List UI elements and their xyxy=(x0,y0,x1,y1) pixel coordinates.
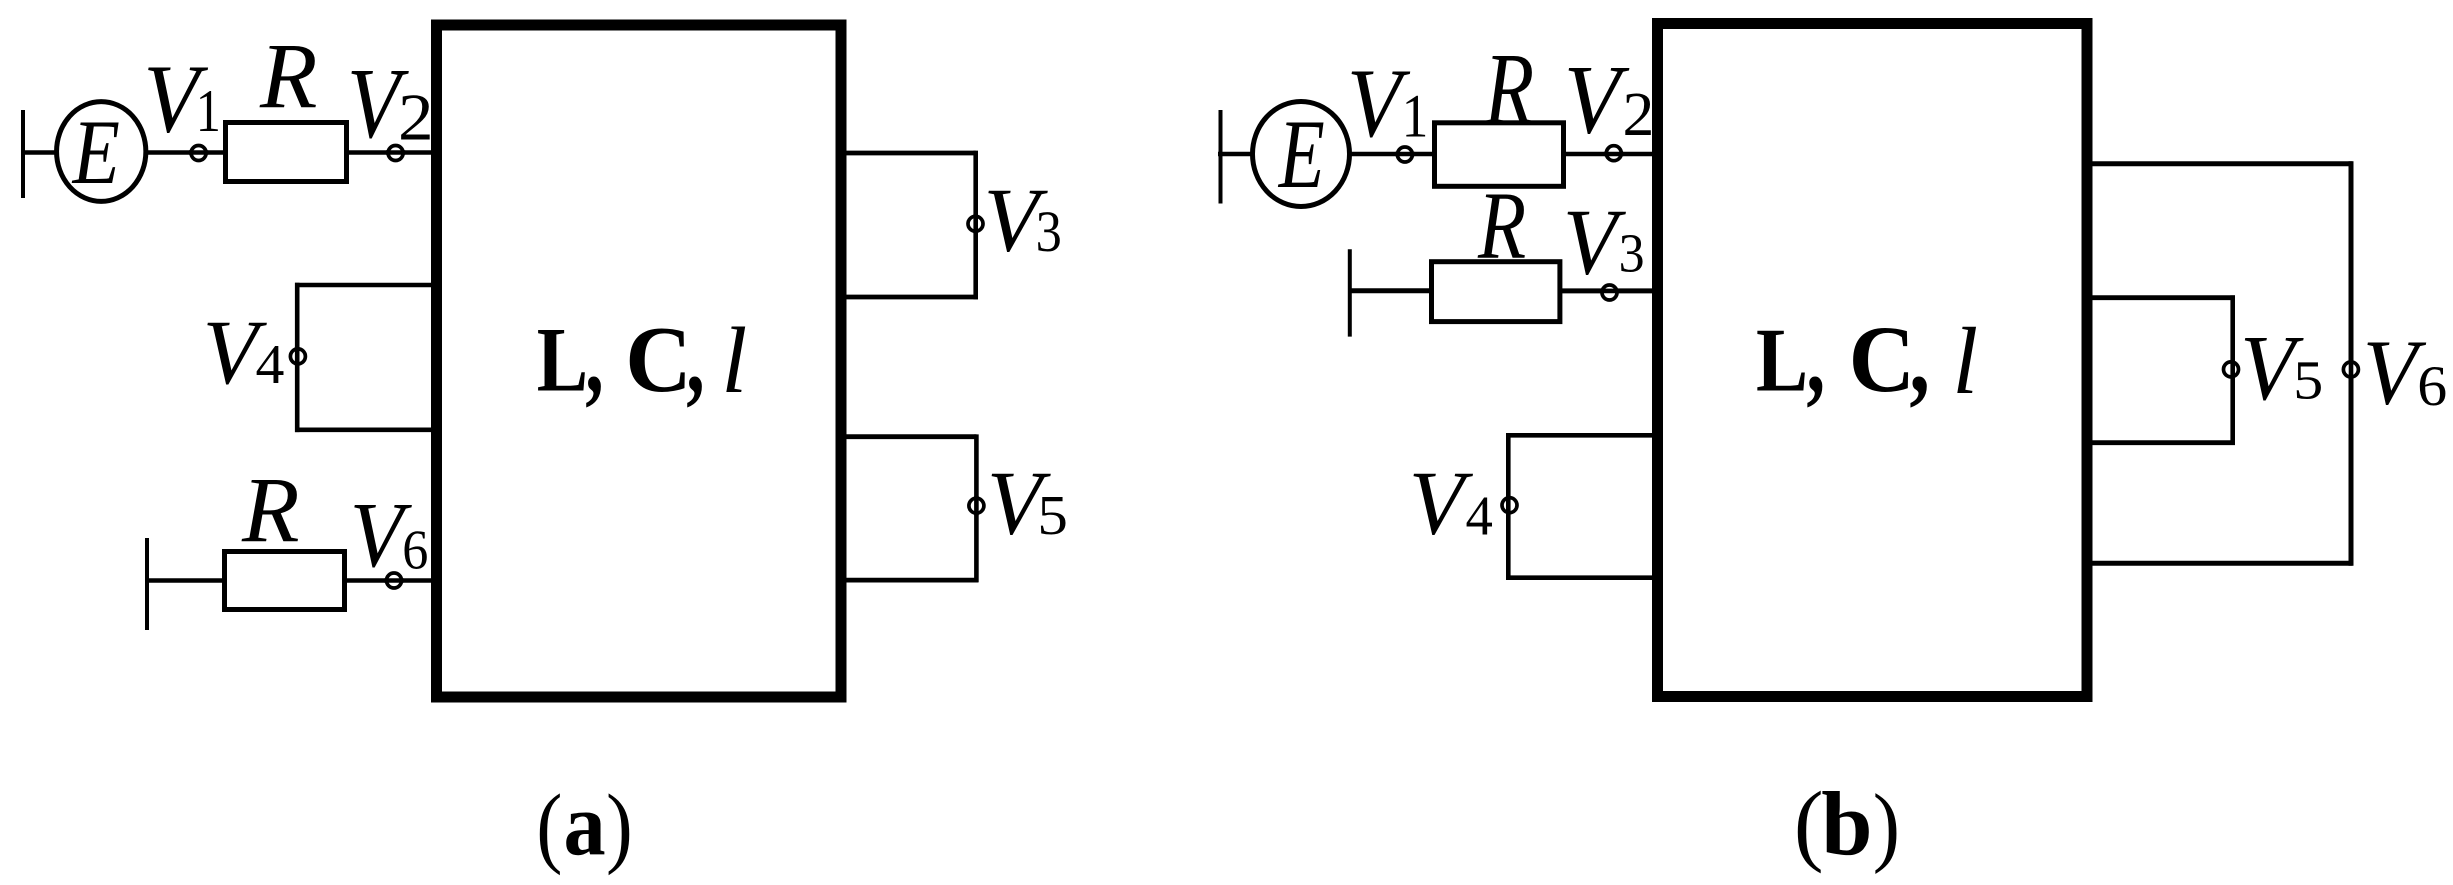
wire terminal to resistor R2 (b) xyxy=(1348,288,1432,293)
node V2 (b) xyxy=(1604,146,1623,161)
wire source E to node V1 (b) xyxy=(1350,152,1398,157)
node V1 (b) xyxy=(1395,147,1414,162)
label V3 (a) xyxy=(984,169,1062,270)
svg-text:V: V xyxy=(1564,45,1630,154)
svg-text:,: , xyxy=(1806,301,1825,414)
terminal bar of source E (b) xyxy=(1219,110,1223,204)
wire terminal to source E (a) xyxy=(21,150,56,155)
label L, C, l (b) xyxy=(1756,301,1978,415)
wire V4 loop bottom (a) xyxy=(295,427,434,432)
svg-text:C: C xyxy=(625,308,691,412)
svg-text:b: b xyxy=(1821,773,1872,874)
node V3 (a) xyxy=(968,214,983,233)
svg-text:5: 5 xyxy=(2293,351,2323,411)
svg-text:4: 4 xyxy=(256,334,285,396)
wire node V1 to resistor R1 (b) xyxy=(1412,152,1435,157)
terminal bar of second input (b) xyxy=(1348,249,1352,336)
label V6 (b) xyxy=(2363,320,2447,424)
svg-text:V: V xyxy=(1409,452,1474,553)
label V2 (b) xyxy=(1564,45,1655,154)
caption (b) xyxy=(1794,773,1900,875)
resistor R1 (b) xyxy=(1435,123,1564,187)
svg-text:L: L xyxy=(1756,310,1808,411)
caption (a) xyxy=(536,776,632,877)
svg-text:R: R xyxy=(259,26,317,128)
wire V4 loop left (a) xyxy=(295,283,300,432)
svg-text:l: l xyxy=(1952,309,1978,415)
svg-text:3: 3 xyxy=(1036,200,1062,264)
svg-text:): ) xyxy=(1873,776,1900,875)
wire V4 loop bottom (b) xyxy=(1506,575,1655,580)
label V4 (a) xyxy=(203,300,285,403)
node V6 (b) xyxy=(2343,360,2358,379)
svg-text:V: V xyxy=(1563,189,1627,294)
svg-text:E: E xyxy=(1277,100,1325,209)
svg-text:l: l xyxy=(721,310,747,413)
node V5 (b) xyxy=(2224,360,2239,379)
label V4 (b) xyxy=(1409,452,1493,553)
wire resistor R1 to node V2 (a) xyxy=(348,150,389,155)
svg-text:,: , xyxy=(686,301,704,415)
wire V3 loop bottom (a) xyxy=(843,295,978,300)
svg-text:4: 4 xyxy=(1466,485,1493,546)
wire V6 loop right (b) xyxy=(2349,161,2354,566)
wire terminal to source E (b) xyxy=(1218,152,1253,157)
svg-text:5: 5 xyxy=(1037,484,1068,546)
wire source E to node V1 (a) xyxy=(146,150,192,155)
wire V4 loop top (a) xyxy=(295,283,434,288)
resistor R2 (b) xyxy=(1432,262,1560,322)
wire V5 loop top (a) xyxy=(843,434,976,439)
two-port network box U2 (b) xyxy=(1658,24,2088,697)
node V2 (a) xyxy=(386,146,405,161)
node V3 (b) xyxy=(1600,285,1619,300)
wire resistor R2 to node V6 (a) xyxy=(346,578,387,583)
svg-text:R: R xyxy=(1483,33,1534,147)
wire V4 loop left (b) xyxy=(1506,433,1511,580)
svg-text:C: C xyxy=(1849,308,1915,413)
svg-text:,: , xyxy=(585,301,603,415)
wire resistor R2 to node V3 (b) xyxy=(1561,288,1602,293)
svg-text:R: R xyxy=(241,459,300,563)
svg-text:): ) xyxy=(606,777,633,876)
svg-text:E: E xyxy=(72,102,120,204)
label V1 (a) xyxy=(143,46,220,153)
label V5 (a) xyxy=(987,452,1068,553)
svg-text:6: 6 xyxy=(2417,354,2447,418)
label V1 (b) xyxy=(1347,49,1428,158)
wire node V2 to network box (a) xyxy=(403,150,434,155)
svg-text:,: , xyxy=(1909,301,1930,415)
wire terminal to resistor R2 (a) xyxy=(145,578,226,583)
label L, C, l (a) xyxy=(537,301,748,415)
node V4 (b) xyxy=(1502,496,1517,515)
node V1 (a) xyxy=(189,146,208,161)
resistor R1 (a) xyxy=(226,123,347,182)
svg-text:2: 2 xyxy=(1623,80,1655,149)
wire V5 loop right (a) xyxy=(974,434,979,582)
wire node V3 to network box (b) xyxy=(1617,288,1655,293)
wire node V1 to resistor R1 (a) xyxy=(206,150,226,155)
terminal bar of lower input (a) xyxy=(145,538,149,630)
wire node V6 to network box (a) xyxy=(402,578,434,583)
svg-text:6: 6 xyxy=(402,517,428,580)
wire node V2 to network box (b) xyxy=(1621,152,1655,157)
label V6 (a) xyxy=(350,483,429,587)
wire V6 loop top (b) xyxy=(2089,161,2352,166)
svg-text:R: R xyxy=(1477,172,1526,278)
label V5 (b) xyxy=(2240,317,2323,420)
svg-text:1: 1 xyxy=(196,78,221,145)
wire V5 loop right (b) xyxy=(2230,295,2235,445)
svg-text:L: L xyxy=(537,309,588,411)
wire V5 loop bottom (b) xyxy=(2089,440,2235,445)
svg-text:(: ( xyxy=(1794,774,1824,874)
svg-text:(: ( xyxy=(536,777,562,876)
svg-text:3: 3 xyxy=(1619,222,1645,284)
label V3 (b) xyxy=(1563,189,1645,294)
wire V4 loop top (b) xyxy=(1506,433,1655,438)
svg-text:1: 1 xyxy=(1402,83,1429,150)
source E1 circle (a) xyxy=(57,102,146,202)
terminal bar of source E (a) xyxy=(21,110,25,198)
node V5 (a) xyxy=(969,496,984,515)
label V2 (a) xyxy=(347,49,434,160)
wire V5 loop top (b) xyxy=(2089,295,2235,300)
svg-text:a: a xyxy=(564,776,606,874)
source E2 circle (b) xyxy=(1253,102,1350,207)
two-port network box U1 (a) xyxy=(437,25,842,697)
svg-text:2: 2 xyxy=(398,81,434,154)
wire V6 loop bottom (b) xyxy=(2089,561,2352,566)
resistor R2 (a) xyxy=(225,552,345,610)
wire V3 loop right (a) xyxy=(973,151,978,300)
wire resistor R1 to node V2 (b) xyxy=(1565,152,1607,157)
wire V3 loop top (a) xyxy=(843,151,976,156)
wire V5 loop bottom (a) xyxy=(843,578,978,583)
node V6 (a) xyxy=(384,573,403,588)
node V4 (a) xyxy=(290,347,305,366)
